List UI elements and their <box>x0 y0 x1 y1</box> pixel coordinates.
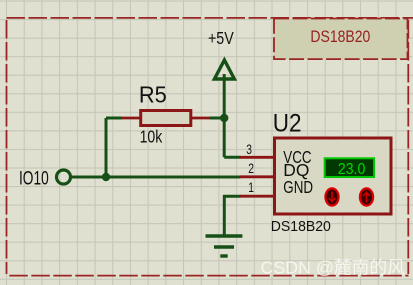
svg-text:+5V: +5V <box>208 30 234 49</box>
resistor R5 body <box>141 111 191 126</box>
U2 temperature display <box>325 158 374 177</box>
wire +5V vertical <box>223 74 226 157</box>
svg-text:3: 3 <box>246 142 252 158</box>
svg-text:U2: U2 <box>273 109 302 137</box>
svg-text:2: 2 <box>248 161 254 177</box>
component U2 DS18B20 body <box>275 138 392 214</box>
svg-text:DS18B20: DS18B20 <box>271 219 331 235</box>
svg-text:CSDN @麓南的风: CSDN @麓南的风 <box>261 257 406 277</box>
resistor R5 left pin <box>121 117 140 120</box>
svg-text:GND: GND <box>283 179 313 198</box>
U2 up button <box>360 188 373 205</box>
wire R5 right to +5V net <box>210 117 225 120</box>
svg-text:DQ: DQ <box>283 160 309 180</box>
power +5V arrow symbol <box>214 60 234 79</box>
node junction at IO10 / R5 <box>102 173 110 181</box>
svg-text:DS18B20: DS18B20 <box>310 28 370 46</box>
ground symbol <box>206 236 243 256</box>
terminal IO10 circle <box>57 170 71 184</box>
wire IO10 to DQ pin <box>72 176 241 179</box>
svg-text:1: 1 <box>248 180 254 196</box>
wire R5 left to corner <box>106 117 122 120</box>
svg-text:IO10: IO10 <box>19 167 49 189</box>
resistor R5 right pin <box>192 117 210 120</box>
U2 pin 2 line <box>240 175 274 178</box>
wire +5V to pin 3 <box>224 156 240 159</box>
header box DS18B20 <box>274 19 408 60</box>
svg-text:R5: R5 <box>139 81 167 108</box>
op U2 pin 3 line <box>240 156 274 159</box>
svg-text:10k: 10k <box>140 128 163 147</box>
U2 pin 1 line <box>240 195 274 198</box>
svg-text:23.0: 23.0 <box>338 160 365 178</box>
wire corner down to IO10 net <box>105 118 108 177</box>
ground wire from pin 1 <box>223 195 240 235</box>
node junction at +5V / R5 <box>220 114 228 122</box>
U2 down button <box>325 188 338 205</box>
